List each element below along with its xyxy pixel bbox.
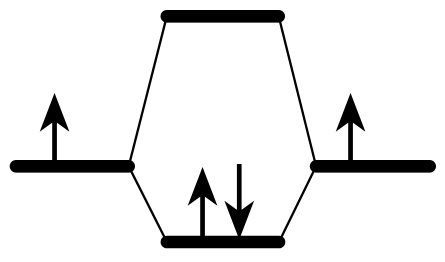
- electron spin-up arrow on left AO: [40, 93, 70, 166]
- correlation line: left AO to bonding MO: [129, 166, 167, 242]
- electron spin-down arrow on bonding MO: [224, 164, 254, 240]
- energy level: bonding MO (bottom): [167, 236, 279, 249]
- electron spin-up arrow on right AO: [336, 93, 366, 166]
- energy level: antibonding MO (top): [167, 10, 279, 23]
- electron spin-up arrow on bonding MO: [188, 167, 218, 242]
- correlation line: left AO to antibonding MO: [129, 16, 167, 166]
- energy level: right atomic orbital: [316, 160, 430, 173]
- correlation line: right AO to antibonding MO: [279, 16, 316, 166]
- energy level: left atomic orbital: [16, 160, 129, 173]
- correlation line: right AO to bonding MO: [279, 166, 316, 242]
